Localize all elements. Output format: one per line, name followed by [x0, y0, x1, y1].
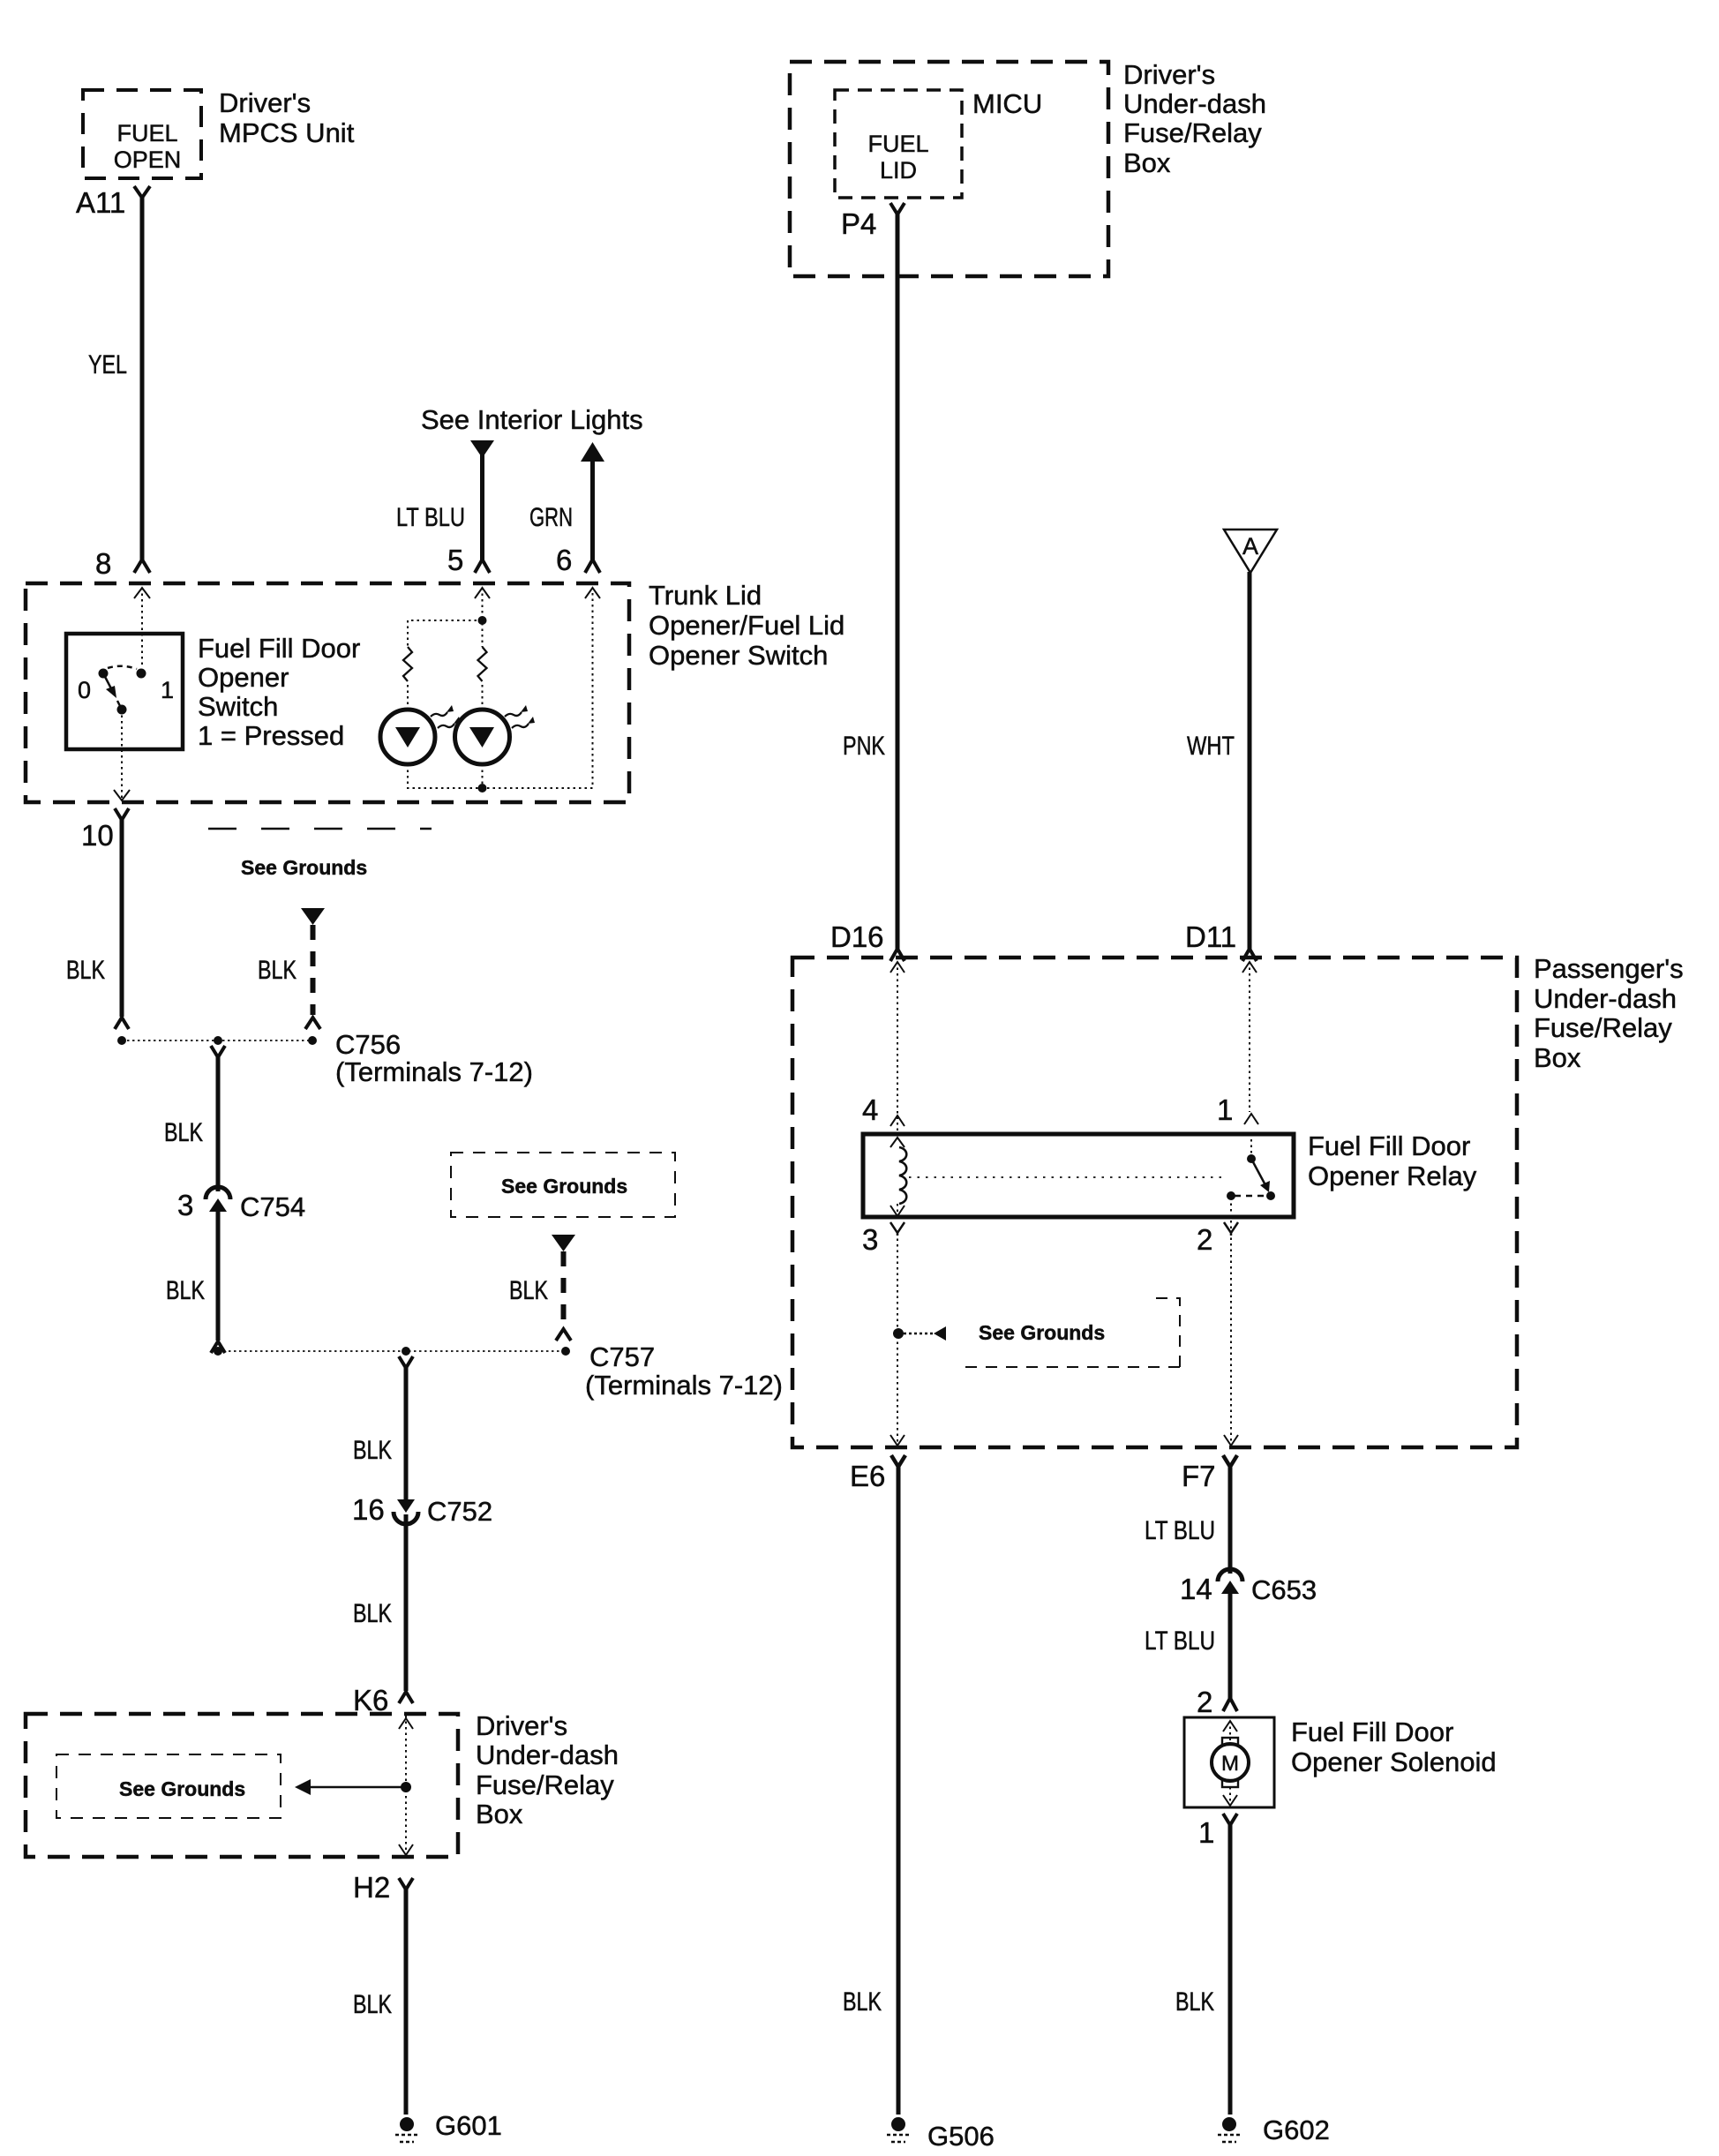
- svg-text:Fuel Fill Door: Fuel Fill Door: [1291, 1717, 1453, 1747]
- svg-text:Opener Switch: Opener Switch: [649, 640, 828, 671]
- svg-text:See Grounds: See Grounds: [119, 1777, 245, 1800]
- relay pin 3 fork below: [890, 1222, 905, 1236]
- connector fork at solenoid pin 2: [1223, 1698, 1237, 1711]
- relay throw dashed: [1235, 1195, 1271, 1198]
- connector fork at P4: [890, 203, 905, 214]
- arrow to interior lights (up): [581, 442, 604, 462]
- label Driver's Under-dash Fuse/Relay Box: [476, 1710, 619, 1829]
- svg-text:C757: C757: [589, 1341, 655, 1372]
- svg-text:Box: Box: [476, 1799, 523, 1829]
- motor circle: [1212, 1744, 1249, 1781]
- svg-text:C756: C756: [335, 1029, 401, 1060]
- dotted stub coil bottom: [897, 1204, 898, 1215]
- svg-text:Trunk Lid: Trunk Lid: [649, 580, 762, 611]
- svg-text:Under-dash: Under-dash: [1534, 983, 1677, 1014]
- junction node right: [308, 1036, 317, 1045]
- svg-text:See Grounds: See Grounds: [979, 1321, 1105, 1344]
- dotted wire lamps to pin 6: [408, 588, 593, 788]
- svg-text:C754: C754: [240, 1191, 305, 1222]
- svg-text:FUEL: FUEL: [116, 120, 177, 146]
- svg-text:A: A: [1242, 533, 1258, 560]
- wire LT BLU C653 to solenoid: [1228, 1591, 1233, 1700]
- switch arm arrowhead: [106, 686, 116, 698]
- svg-text:BLK: BLK: [843, 1987, 882, 2017]
- svg-text:MPCS Unit: MPCS Unit: [219, 117, 355, 148]
- svg-text:LT BLU: LT BLU: [396, 503, 465, 532]
- switch arm: [103, 673, 122, 710]
- connector fork below C756 junction: [211, 1046, 225, 1057]
- junction node left C757: [214, 1347, 222, 1356]
- label Driver's Under-dash Fuse/Relay Box: [1123, 59, 1266, 178]
- svg-text:Driver's: Driver's: [1123, 59, 1215, 90]
- svg-text:Driver's: Driver's: [219, 87, 311, 118]
- fuse box: Driver's Under-dash Fuse/Relay Box (lower): [26, 1714, 458, 1857]
- connector C754 pin arrow: [209, 1198, 227, 1212]
- svg-text:1: 1: [1198, 1816, 1214, 1849]
- svg-text:(Terminals 7-12): (Terminals 7-12): [335, 1056, 533, 1087]
- svg-text:WHT: WHT: [1187, 732, 1235, 761]
- svg-text:2: 2: [1197, 1223, 1212, 1256]
- unit box: Driver's MPCS Unit: [83, 90, 201, 178]
- switch common node: [117, 705, 127, 715]
- svg-text:E6: E6: [850, 1460, 885, 1492]
- wire BLK E6 to G506: [897, 1466, 901, 2115]
- dashed ground wire BLK: [311, 925, 316, 1015]
- lamp L1 (illumination LED): [380, 710, 435, 764]
- wire BLK solenoid to G602: [1228, 1824, 1233, 2115]
- svg-text:M: M: [1221, 1752, 1239, 1776]
- svg-text:8: 8: [95, 547, 111, 580]
- svg-text:BLK: BLK: [66, 956, 105, 985]
- chevron relay coil bottom: [890, 1206, 905, 1216]
- motor terminal top: [1222, 1738, 1238, 1745]
- relay switch arm arrowhead: [1260, 1181, 1270, 1192]
- lamp L2 (indicator LED): [455, 710, 510, 764]
- label Passenger's Under-dash Fuse/Relay Box: [1534, 953, 1684, 1073]
- chevron at F7 inside box: [1224, 1435, 1238, 1446]
- svg-text:BLK: BLK: [353, 1599, 392, 1628]
- ground G601 hatching: [395, 2135, 418, 2142]
- relay coil: [899, 1147, 906, 1204]
- wire BLK junction to C754: [216, 1056, 221, 1191]
- svg-text:BLK: BLK: [353, 1436, 392, 1465]
- svg-text:0: 0: [78, 677, 91, 703]
- svg-text:Fuel Fill Door: Fuel Fill Door: [198, 633, 360, 664]
- connector fork at F7: [1223, 1455, 1237, 1467]
- svg-text:MICU: MICU: [972, 88, 1042, 119]
- svg-text:Fuse/Relay: Fuse/Relay: [1534, 1012, 1672, 1043]
- svg-text:GRN: GRN: [529, 503, 573, 532]
- relay contact node thrown: [1266, 1191, 1275, 1200]
- relay K1 box: Fuel Fill Door Opener Relay: [863, 1134, 1294, 1217]
- lamp L2 triangle: [469, 727, 494, 747]
- switch unit box: Trunk Lid Opener / Fuel Lid Opener Switch: [26, 583, 629, 802]
- svg-text:LID: LID: [880, 157, 917, 184]
- svg-text:FUEL: FUEL: [867, 131, 928, 157]
- wire BLK C752 to K6: [404, 1514, 409, 1691]
- svg-text:Driver's: Driver's: [476, 1710, 567, 1741]
- wire BLK pin 10 to C756: [120, 819, 124, 1017]
- svg-text:LT BLU: LT BLU: [1145, 1516, 1215, 1545]
- svg-text:P4: P4: [841, 207, 876, 240]
- wire LT BLU pin 5: [480, 454, 484, 561]
- ground G602 node: [1222, 2117, 1236, 2131]
- chevron at K6 inside box: [399, 1718, 413, 1729]
- connector fork above C757: [211, 1341, 225, 1353]
- svg-text:BLK: BLK: [164, 1118, 203, 1147]
- wire GRN pin 6: [590, 457, 595, 561]
- ground G506 node: [891, 2117, 905, 2131]
- connector fork at H2: [399, 1878, 413, 1889]
- chevron at E6 inside box: [890, 1435, 905, 1446]
- svg-text:G506: G506: [927, 2121, 995, 2152]
- svg-text:Box: Box: [1534, 1042, 1581, 1073]
- svg-text:See Grounds: See Grounds: [501, 1175, 627, 1198]
- fuse box: Driver's Under-dash Fuse/Relay Box (upper): [790, 62, 1108, 276]
- svg-text:16: 16: [352, 1493, 385, 1526]
- lamp L2 light arrows: [505, 712, 529, 728]
- ground reference triangle: [301, 908, 325, 925]
- svg-text:Opener Solenoid: Opener Solenoid: [1291, 1747, 1497, 1777]
- connector fork at A11: [134, 186, 150, 198]
- relay pin 4 chevron: [890, 1116, 905, 1126]
- junction node bottom of lamps: [478, 784, 487, 793]
- connector fork at D16: [890, 949, 905, 961]
- svg-text:See Interior Lights: See Interior Lights: [421, 404, 643, 435]
- fuse box: Passenger's Under-dash Fuse/Relay Box: [792, 958, 1517, 1447]
- junction node right C757: [561, 1347, 570, 1356]
- connector C752 pin arrow (down): [397, 1499, 415, 1513]
- junction node on K6-H2 wire: [401, 1782, 411, 1792]
- connector fork at pin 8: [134, 560, 150, 573]
- connector fork at E6: [891, 1455, 905, 1467]
- see grounds bracket partial: [962, 1298, 1180, 1370]
- see grounds dashes: [208, 828, 432, 830]
- svg-text:14: 14: [1180, 1573, 1212, 1605]
- resistor squiggle left branch: [403, 647, 412, 681]
- svg-text:Fuse/Relay: Fuse/Relay: [1123, 117, 1262, 148]
- svg-text:G602: G602: [1263, 2115, 1330, 2145]
- connector fork below C757 junction: [399, 1356, 413, 1368]
- svg-text:D16: D16: [830, 920, 884, 953]
- wire BLK junction to C752: [404, 1367, 409, 1500]
- svg-text:F7: F7: [1182, 1460, 1216, 1492]
- wire YEL A11 to pin 8: [140, 196, 145, 561]
- connector C752 socket arc: [394, 1512, 418, 1524]
- svg-text:6: 6: [556, 544, 572, 576]
- svg-text:Box: Box: [1123, 147, 1171, 178]
- power node A triangle: [1224, 530, 1277, 573]
- connector fork at K6: [399, 1692, 413, 1703]
- svg-text:Fuse/Relay: Fuse/Relay: [476, 1769, 614, 1800]
- svg-text:K6: K6: [353, 1684, 388, 1717]
- wire LT BLU F7 to C653: [1228, 1466, 1233, 1574]
- label Fuel Fill Door Opener Solenoid: [1291, 1717, 1497, 1777]
- relay switch arm: [1251, 1159, 1265, 1183]
- lamp L1 triangle: [395, 727, 420, 747]
- connector fork ground stub: [305, 1018, 320, 1029]
- chevron at D11 inside box: [1242, 962, 1257, 973]
- arrow to grounds (left): [934, 1326, 946, 1341]
- svg-text:C752: C752: [427, 1496, 492, 1527]
- svg-text:3: 3: [862, 1223, 878, 1256]
- svg-text:Opener/Fuel Lid: Opener/Fuel Lid: [649, 610, 844, 641]
- svg-text:G601: G601: [435, 2110, 502, 2141]
- connector fork at pin 6: [585, 560, 600, 573]
- label Driver's MPCS Unit: [219, 87, 355, 148]
- dotted wire D11 to relay pin 1: [1249, 962, 1250, 1112]
- solenoid M1 box: Fuel Fill Door Opener Solenoid: [1184, 1717, 1274, 1807]
- chevron pin 8 inside box: [134, 588, 150, 598]
- dotted wire pin 5 to lamp junction: [482, 588, 484, 618]
- dotted wire relay pin 1 up: [1250, 1136, 1252, 1159]
- svg-text:Opener Relay: Opener Relay: [1308, 1161, 1477, 1191]
- relay pin 2 fork below: [1224, 1222, 1238, 1236]
- relay internal dotted link: [909, 1176, 1225, 1178]
- dotted link node to arrow: [898, 1333, 935, 1334]
- svg-text:3: 3: [177, 1189, 193, 1221]
- svg-text:BLK: BLK: [258, 956, 297, 985]
- chevron at D16 inside box: [890, 962, 905, 973]
- wire BLK H2 to G601: [404, 1889, 409, 2115]
- chevron at H2 inside box: [399, 1844, 413, 1855]
- MICU unit box: FUEL LID: [835, 90, 962, 198]
- svg-text:See Grounds: See Grounds: [241, 856, 367, 879]
- svg-text:Switch: Switch: [198, 691, 278, 722]
- connector C653 socket arc: [1218, 1569, 1242, 1581]
- svg-text:4: 4: [862, 1093, 878, 1126]
- dotted wire to left lamp branch: [408, 620, 483, 711]
- arrow to grounds: [295, 1779, 311, 1795]
- ground G602 hatching: [1218, 2135, 1241, 2142]
- junction node see grounds: [893, 1328, 904, 1339]
- ground G601 node: [400, 2117, 414, 2131]
- relay contact node pin 2: [1227, 1191, 1235, 1200]
- svg-text:OPEN: OPEN: [114, 146, 182, 173]
- dotted wire D16 to relay pin 4: [897, 962, 898, 1132]
- svg-text:Fuel Fill Door: Fuel Fill Door: [1308, 1131, 1470, 1161]
- switch S1 box: Fuel Fill Door Opener Switch: [66, 634, 183, 749]
- svg-text:BLK: BLK: [353, 1990, 392, 2019]
- chevron pin 6 inside box: [585, 588, 600, 598]
- chevron solenoid bottom: [1223, 1795, 1237, 1806]
- junction line C757: [218, 1350, 566, 1352]
- connector fork at pin 5: [475, 560, 490, 573]
- relay contact node pin 1: [1247, 1154, 1256, 1163]
- svg-text:Passenger's: Passenger's: [1534, 953, 1684, 984]
- relay pin 1 chevron: [1244, 1114, 1258, 1124]
- svg-text:YEL: YEL: [88, 350, 127, 379]
- dotted wire relay pin 3 to E6: [897, 1233, 898, 1446]
- svg-text:5: 5: [447, 544, 463, 576]
- connector fork at D11: [1242, 949, 1257, 961]
- svg-text:(Terminals 7-12): (Terminals 7-12): [585, 1370, 783, 1401]
- switch throw arc: [108, 666, 137, 669]
- chevron pin 5 inside box: [475, 588, 490, 598]
- see grounds bracket box: [56, 1754, 281, 1818]
- dotted wire solenoid internal top: [1229, 1721, 1231, 1741]
- resistor squiggle right branch: [478, 647, 487, 681]
- label Fuel Fill Door Opener Relay: [1308, 1131, 1477, 1191]
- chevron solenoid top: [1223, 1721, 1237, 1732]
- lamp L1 light arrows: [431, 712, 454, 728]
- svg-text:BLK: BLK: [1175, 1987, 1214, 2017]
- svg-text:Opener: Opener: [198, 662, 289, 693]
- connector C653 pin arrow: [1221, 1581, 1239, 1594]
- svg-text:BLK: BLK: [509, 1276, 548, 1305]
- junction node top of lamps: [478, 616, 487, 625]
- switch contact node 1: [137, 669, 146, 679]
- switch contact node 0: [99, 669, 109, 679]
- dotted wire solenoid internal bottom: [1229, 1787, 1231, 1806]
- connector fork below pin 10: [115, 808, 129, 820]
- connector fork at solenoid pin 1: [1223, 1814, 1237, 1825]
- wire PNK P4 to D16: [896, 213, 900, 950]
- svg-text:BLK: BLK: [166, 1276, 205, 1305]
- wire to ground node: [309, 1786, 406, 1789]
- ground reference triangle mid: [552, 1235, 575, 1251]
- svg-text:A11: A11: [76, 186, 125, 219]
- wire WHT A to D11: [1248, 572, 1252, 950]
- dotted wire relay pin 2 to F7: [1230, 1198, 1232, 1446]
- dotted wire K6 to H2 through box: [405, 1716, 407, 1855]
- svg-text:10: 10: [81, 819, 114, 852]
- svg-text:D11: D11: [1185, 920, 1236, 953]
- wire BLK C754 to C757: [216, 1209, 221, 1341]
- chevron at pin 10 inside box: [114, 790, 130, 800]
- dashed ground wire BLK mid: [561, 1251, 567, 1328]
- svg-text:1: 1: [161, 677, 174, 703]
- svg-text:Under-dash: Under-dash: [476, 1739, 619, 1770]
- junction line C756: [122, 1040, 312, 1041]
- ground G506 hatching: [887, 2135, 910, 2142]
- connector fork ground stub mid: [556, 1329, 571, 1341]
- svg-text:1 = Pressed: 1 = Pressed: [198, 720, 344, 751]
- motor terminal bottom: [1222, 1780, 1238, 1787]
- connector fork above C756: [115, 1018, 129, 1029]
- junction node left: [117, 1036, 126, 1045]
- connector C754 socket arc: [206, 1187, 230, 1199]
- dotted wire switch common to pin 10: [121, 710, 123, 800]
- junction node mid C757: [402, 1347, 410, 1356]
- arrow from interior lights (down): [470, 440, 494, 458]
- junction node mid: [214, 1036, 222, 1045]
- svg-text:1: 1: [1217, 1093, 1233, 1126]
- svg-text:PNK: PNK: [843, 732, 885, 761]
- svg-text:LT BLU: LT BLU: [1145, 1626, 1215, 1656]
- svg-text:Under-dash: Under-dash: [1123, 88, 1266, 119]
- chevron relay coil top: [890, 1138, 905, 1147]
- svg-text:2: 2: [1197, 1686, 1212, 1718]
- dotted wire pin 8 to switch contact: [141, 588, 143, 668]
- label Fuel Fill Door Opener Switch 1 = Pressed: [198, 633, 360, 751]
- label Trunk Lid Opener/Fuel Lid Opener Switch: [649, 580, 844, 671]
- see grounds dashed box mid: [451, 1153, 675, 1217]
- svg-text:H2: H2: [353, 1871, 390, 1904]
- svg-text:C653: C653: [1251, 1574, 1317, 1605]
